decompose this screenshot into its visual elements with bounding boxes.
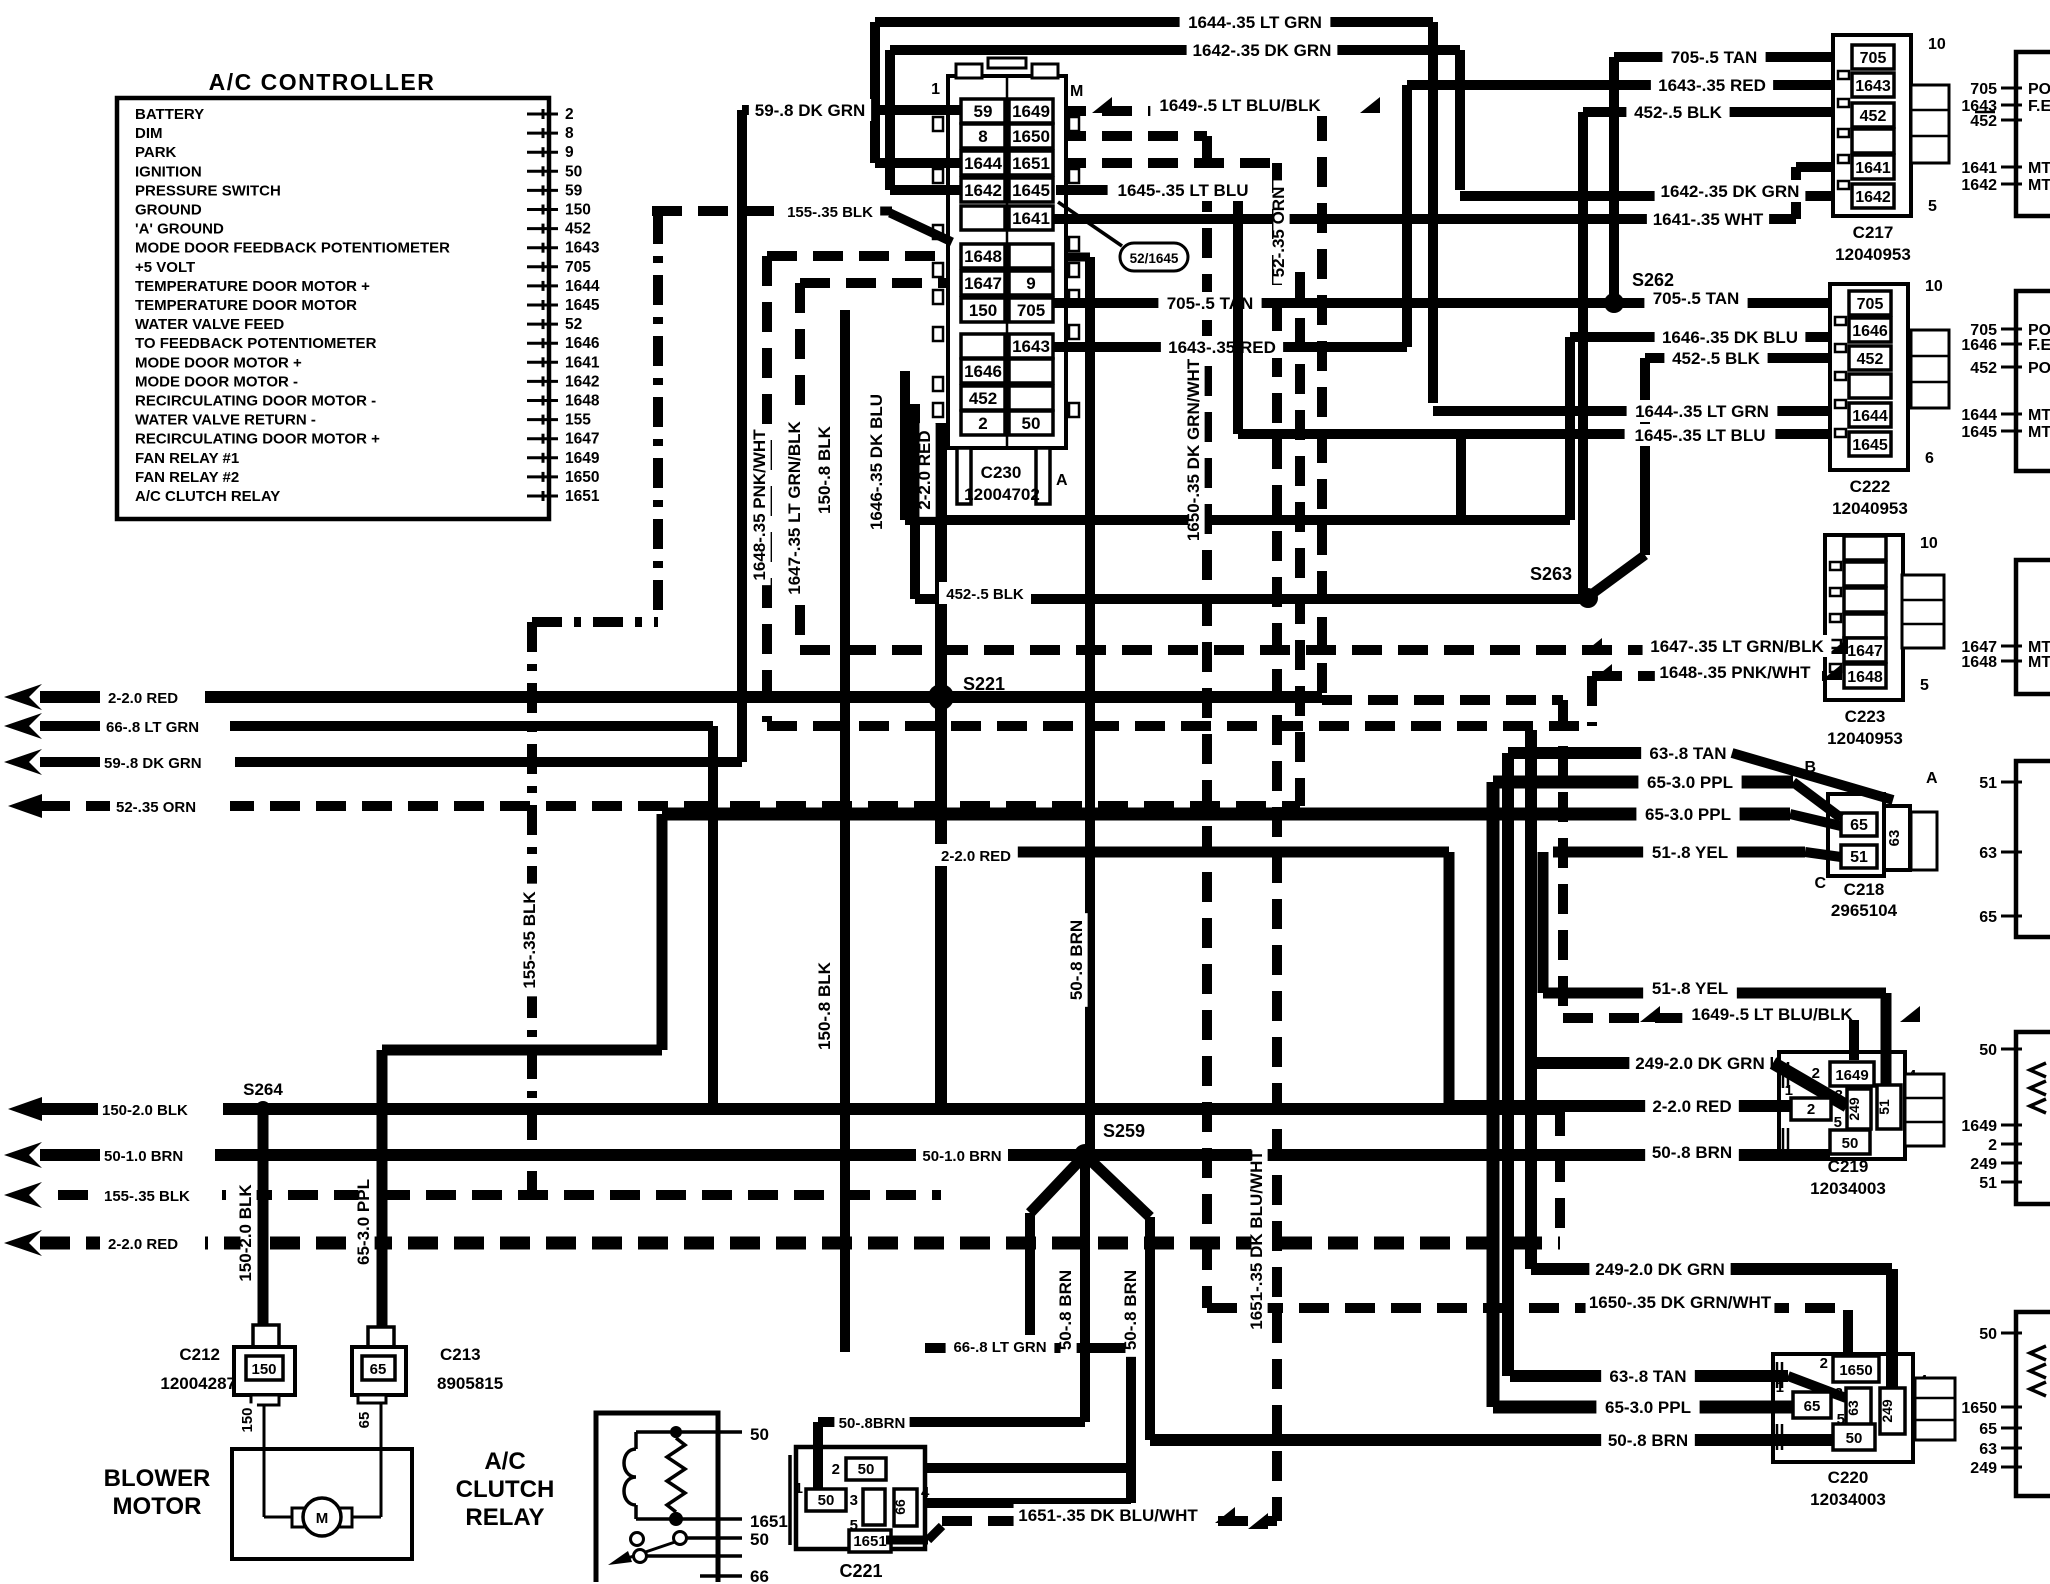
svg-text:PRESSURE SWITCH: PRESSURE SWITCH: [135, 182, 281, 199]
svg-text:1651: 1651: [853, 1533, 886, 1550]
svg-text:1647-.35 LT GRN/BLK: 1647-.35 LT GRN/BLK: [785, 421, 804, 595]
svg-text:C230: C230: [981, 463, 1022, 482]
svg-text:52/1645: 52/1645: [1130, 251, 1179, 266]
svg-text:S221: S221: [963, 674, 1005, 694]
svg-text:155: 155: [565, 412, 591, 429]
svg-text:249: 249: [1846, 1097, 1862, 1121]
svg-text:1645: 1645: [565, 297, 600, 314]
svg-text:1651-.35 DK BLU/WHT: 1651-.35 DK BLU/WHT: [1018, 1506, 1198, 1525]
svg-text:PO: PO: [2028, 81, 2050, 98]
svg-text:DIM: DIM: [135, 125, 163, 142]
svg-text:S262: S262: [1632, 270, 1674, 290]
svg-text:1642: 1642: [1855, 189, 1891, 206]
svg-text:1647: 1647: [1847, 643, 1883, 660]
svg-text:TEMPERATURE DOOR MOTOR +: TEMPERATURE DOOR MOTOR +: [135, 278, 370, 295]
svg-text:705: 705: [1970, 81, 1997, 98]
svg-text:A/C: A/C: [484, 1448, 525, 1475]
svg-text:63: 63: [1979, 1441, 1997, 1458]
svg-text:10: 10: [1925, 278, 1943, 295]
svg-text:51-.8 YEL: 51-.8 YEL: [1652, 979, 1728, 998]
svg-text:1641: 1641: [1855, 160, 1891, 177]
svg-text:WATER VALVE FEED: WATER VALVE FEED: [135, 316, 284, 333]
svg-text:65-3.0 PPL: 65-3.0 PPL: [354, 1179, 373, 1265]
svg-text:63-.8 TAN: 63-.8 TAN: [1649, 744, 1726, 763]
svg-text:66-.8 LT GRN: 66-.8 LT GRN: [106, 719, 199, 736]
svg-text:150: 150: [565, 202, 591, 219]
svg-text:66-.8 LT GRN: 66-.8 LT GRN: [953, 1339, 1046, 1356]
svg-text:1644-.35 LT GRN: 1644-.35 LT GRN: [1635, 402, 1769, 421]
svg-text:50-.8 BRN: 50-.8 BRN: [1652, 1143, 1732, 1162]
svg-text:MODE DOOR MOTOR +: MODE DOOR MOTOR +: [135, 354, 302, 371]
svg-text:452: 452: [969, 389, 997, 408]
svg-text:BATTERY: BATTERY: [135, 106, 204, 123]
svg-text:8: 8: [565, 125, 574, 142]
svg-text:CLUTCH: CLUTCH: [456, 1476, 555, 1503]
svg-text:1650: 1650: [1012, 127, 1050, 146]
svg-text:1646: 1646: [1852, 323, 1888, 340]
svg-text:65-3.0 PPL: 65-3.0 PPL: [1647, 773, 1733, 792]
svg-text:S259: S259: [1103, 1121, 1145, 1141]
svg-text:12040953: 12040953: [1827, 729, 1903, 748]
svg-text:1647-.35 LT GRN/BLK: 1647-.35 LT GRN/BLK: [1650, 637, 1824, 656]
svg-text:1650: 1650: [1961, 1400, 1997, 1417]
svg-text:1641: 1641: [565, 354, 600, 371]
svg-text:50: 50: [858, 1461, 875, 1478]
svg-text:1646-.35 DK BLU: 1646-.35 DK BLU: [1662, 328, 1798, 347]
svg-text:1644: 1644: [964, 154, 1002, 173]
svg-text:M: M: [1070, 83, 1083, 100]
svg-text:1650-.35 DK GRN/WHT: 1650-.35 DK GRN/WHT: [1184, 358, 1203, 541]
svg-text:155-.35 BLK: 155-.35 BLK: [787, 204, 873, 221]
svg-text:BLOWER: BLOWER: [104, 1465, 211, 1492]
svg-text:1648-.35 PNK/WHT: 1648-.35 PNK/WHT: [1659, 663, 1811, 682]
svg-text:51-.8 YEL: 51-.8 YEL: [1652, 843, 1728, 862]
svg-text:150: 150: [969, 301, 997, 320]
svg-text:C220: C220: [1828, 1468, 1869, 1487]
svg-text:PARK: PARK: [135, 144, 177, 161]
svg-text:1648-.35 PNK/WHT: 1648-.35 PNK/WHT: [750, 429, 769, 581]
svg-text:59: 59: [974, 102, 993, 121]
svg-text:2-2.0 RED: 2-2.0 RED: [915, 430, 934, 509]
svg-text:C218: C218: [1844, 880, 1885, 899]
svg-text:249: 249: [1879, 1399, 1895, 1423]
svg-text:1642-.35 DK GRN: 1642-.35 DK GRN: [1193, 41, 1332, 60]
svg-text:1643-.35 RED: 1643-.35 RED: [1168, 338, 1276, 357]
svg-text:1641: 1641: [1961, 160, 1997, 177]
svg-text:8: 8: [978, 127, 987, 146]
svg-text:IGNITION: IGNITION: [135, 163, 202, 180]
svg-text:3: 3: [1835, 1385, 1843, 1402]
svg-text:2: 2: [1807, 1101, 1815, 1118]
svg-text:1643: 1643: [565, 240, 600, 257]
svg-text:10: 10: [1928, 36, 1946, 53]
svg-text:65-3.0 PPL: 65-3.0 PPL: [1605, 1398, 1691, 1417]
svg-text:50-1.0 BRN: 50-1.0 BRN: [922, 1148, 1001, 1165]
svg-text:65: 65: [356, 1412, 373, 1429]
svg-text:1651: 1651: [1012, 154, 1050, 173]
svg-text:1646: 1646: [1961, 337, 1997, 354]
svg-text:5: 5: [1837, 1411, 1845, 1428]
svg-text:51: 51: [1979, 1175, 1997, 1192]
svg-text:59-.8 DK GRN: 59-.8 DK GRN: [104, 755, 202, 772]
svg-text:452-.5 BLK: 452-.5 BLK: [1672, 349, 1761, 368]
svg-text:2: 2: [1988, 1137, 1997, 1154]
svg-text:50: 50: [565, 163, 582, 180]
svg-text:RELAY: RELAY: [465, 1504, 544, 1531]
svg-text:GROUND: GROUND: [135, 202, 202, 219]
svg-text:MT: MT: [2028, 424, 2050, 441]
svg-text:C212: C212: [179, 1345, 220, 1364]
svg-text:50-.8 BRN: 50-.8 BRN: [1121, 1270, 1140, 1350]
svg-text:MT: MT: [2028, 160, 2050, 177]
svg-text:1648: 1648: [1847, 669, 1883, 686]
svg-text:S263: S263: [1530, 564, 1572, 584]
svg-text:12040953: 12040953: [1832, 499, 1908, 518]
svg-text:249-2.0 DK GRN: 249-2.0 DK GRN: [1595, 1260, 1724, 1279]
svg-text:4: 4: [921, 1484, 930, 1501]
svg-text:1: 1: [795, 1480, 803, 1497]
svg-text:F.E: F.E: [2028, 337, 2050, 354]
svg-text:2-2.0 RED: 2-2.0 RED: [108, 690, 178, 707]
svg-text:150: 150: [251, 1361, 276, 1378]
svg-text:50-1.0 BRN: 50-1.0 BRN: [104, 1148, 183, 1165]
svg-text:705: 705: [565, 259, 591, 276]
svg-text:MT: MT: [2028, 177, 2050, 194]
svg-text:65: 65: [1850, 817, 1868, 834]
svg-text:150: 150: [239, 1407, 256, 1432]
svg-text:MODE DOOR MOTOR -: MODE DOOR MOTOR -: [135, 373, 298, 390]
svg-text:MOTOR: MOTOR: [113, 1493, 202, 1520]
svg-text:1650-.35 DK GRN/WHT: 1650-.35 DK GRN/WHT: [1589, 1293, 1772, 1312]
svg-text:1651: 1651: [750, 1512, 788, 1531]
svg-text:65: 65: [1979, 909, 1997, 926]
svg-text:F.E: F.E: [2028, 98, 2050, 115]
svg-text:1: 1: [931, 81, 940, 98]
svg-text:50-.8 BRN: 50-.8 BRN: [1067, 920, 1086, 1000]
svg-text:50: 50: [1979, 1042, 1997, 1059]
svg-text:1646: 1646: [964, 362, 1002, 381]
svg-text:1645: 1645: [1852, 437, 1888, 454]
svg-text:51: 51: [1850, 849, 1868, 866]
svg-text:51: 51: [1876, 1099, 1892, 1115]
svg-text:2: 2: [832, 1461, 840, 1478]
svg-text:1649: 1649: [1961, 1118, 1997, 1135]
svg-text:MT: MT: [2028, 407, 2050, 424]
svg-text:1648: 1648: [964, 247, 1002, 266]
svg-text:1641-.35 WHT: 1641-.35 WHT: [1653, 210, 1764, 229]
svg-text:6: 6: [1925, 450, 1934, 467]
svg-text:'A' GROUND: 'A' GROUND: [135, 221, 224, 238]
svg-text:150-.8 BLK: 150-.8 BLK: [815, 425, 834, 514]
svg-text:65: 65: [1979, 1421, 1997, 1438]
svg-text:1644: 1644: [1961, 407, 1997, 424]
svg-text:C222: C222: [1850, 477, 1891, 496]
svg-text:C: C: [1814, 875, 1826, 892]
svg-text:1645-.35 LT BLU: 1645-.35 LT BLU: [1117, 181, 1248, 200]
svg-text:5: 5: [1834, 1114, 1842, 1131]
svg-text:12034003: 12034003: [1810, 1490, 1886, 1509]
svg-text:63: 63: [1845, 1400, 1861, 1416]
svg-text:10: 10: [1920, 535, 1938, 552]
svg-text:+5 VOLT: +5 VOLT: [135, 259, 195, 276]
svg-text:1649: 1649: [565, 450, 600, 467]
svg-text:1645-.35 LT BLU: 1645-.35 LT BLU: [1634, 426, 1765, 445]
svg-text:249-2.0 DK GRN: 249-2.0 DK GRN: [1635, 1054, 1764, 1073]
svg-text:150-2.0 BLK: 150-2.0 BLK: [102, 1102, 188, 1119]
svg-text:705: 705: [1857, 296, 1884, 313]
svg-text:5: 5: [1920, 677, 1929, 694]
svg-text:50: 50: [1846, 1430, 1863, 1447]
svg-text:1646-.35 DK BLU: 1646-.35 DK BLU: [867, 394, 886, 530]
svg-text:705: 705: [1017, 301, 1045, 320]
svg-text:12034003: 12034003: [1810, 1179, 1886, 1198]
svg-text:1642: 1642: [1961, 177, 1997, 194]
svg-text:3: 3: [850, 1492, 858, 1509]
svg-text:MT: MT: [2028, 654, 2050, 671]
svg-text:66: 66: [892, 1499, 908, 1515]
svg-text:65: 65: [370, 1361, 387, 1378]
svg-text:A: A: [1926, 770, 1938, 787]
svg-text:A/C CONTROLLER: A/C CONTROLLER: [209, 69, 436, 95]
svg-text:1642: 1642: [565, 373, 599, 390]
svg-text:452-.5 BLK: 452-.5 BLK: [946, 586, 1024, 603]
svg-text:1644: 1644: [565, 278, 600, 295]
svg-text:RECIRCULATING DOOR MOTOR +: RECIRCULATING DOOR MOTOR +: [135, 431, 380, 448]
svg-text:3: 3: [1835, 1087, 1843, 1104]
svg-text:50: 50: [818, 1492, 835, 1509]
svg-text:A: A: [1056, 472, 1068, 489]
svg-text:452: 452: [1857, 351, 1884, 368]
svg-text:150-.8 BLK: 150-.8 BLK: [815, 961, 834, 1050]
svg-text:452: 452: [1970, 360, 1997, 377]
svg-text:705-.5 TAN: 705-.5 TAN: [1653, 289, 1740, 308]
svg-text:1646: 1646: [565, 335, 600, 352]
svg-text:MODE DOOR FEEDBACK POTENTIOMET: MODE DOOR FEEDBACK POTENTIOMETER: [135, 240, 450, 257]
svg-text:1642: 1642: [964, 181, 1002, 200]
svg-text:RECIRCULATING DOOR MOTOR -: RECIRCULATING DOOR MOTOR -: [135, 393, 376, 410]
svg-text:C223: C223: [1845, 707, 1886, 726]
svg-text:TO FEEDBACK POTENTIOMETER: TO FEEDBACK POTENTIOMETER: [135, 335, 377, 352]
svg-text:249: 249: [1970, 1460, 1997, 1477]
svg-text:1649: 1649: [1012, 102, 1050, 121]
svg-text:C213: C213: [440, 1345, 481, 1364]
svg-text:50: 50: [750, 1425, 769, 1444]
svg-text:150-2.0 BLK: 150-2.0 BLK: [236, 1184, 255, 1282]
svg-text:705-.5 TAN: 705-.5 TAN: [1671, 48, 1758, 67]
svg-text:50: 50: [1979, 1326, 1997, 1343]
svg-text:1650: 1650: [1839, 1362, 1872, 1379]
svg-text:2: 2: [1820, 1355, 1828, 1372]
svg-text:2-2.0 RED: 2-2.0 RED: [108, 1236, 178, 1253]
svg-text:9: 9: [565, 144, 574, 161]
svg-text:S264: S264: [243, 1080, 283, 1099]
svg-text:1648: 1648: [1961, 654, 1997, 671]
svg-text:TEMPERATURE DOOR MOTOR: TEMPERATURE DOOR MOTOR: [135, 297, 357, 314]
svg-text:1643: 1643: [1012, 337, 1050, 356]
svg-text:51: 51: [1979, 775, 1997, 792]
svg-text:2: 2: [1812, 1065, 1820, 1082]
svg-text:50-.8 BRN: 50-.8 BRN: [1608, 1431, 1688, 1450]
svg-text:2-2.0 RED: 2-2.0 RED: [941, 848, 1011, 865]
svg-text:8905815: 8905815: [437, 1374, 503, 1393]
svg-text:12004287: 12004287: [160, 1374, 236, 1393]
svg-text:C217: C217: [1853, 223, 1894, 242]
svg-text:63-.8 TAN: 63-.8 TAN: [1609, 1367, 1686, 1386]
svg-text:59: 59: [565, 182, 583, 199]
svg-text:1651: 1651: [565, 488, 600, 505]
svg-text:50-.8BRN: 50-.8BRN: [839, 1415, 906, 1432]
svg-text:2: 2: [565, 106, 574, 123]
svg-text:A/C CLUTCH RELAY: A/C CLUTCH RELAY: [135, 488, 280, 505]
svg-text:63: 63: [1886, 830, 1903, 847]
svg-text:452: 452: [565, 221, 591, 238]
svg-text:155-.35 BLK: 155-.35 BLK: [104, 1188, 190, 1205]
svg-text:1649-.5 LT BLU/BLK: 1649-.5 LT BLU/BLK: [1159, 96, 1321, 115]
svg-text:C219: C219: [1828, 1157, 1869, 1176]
svg-text:452-.5 BLK: 452-.5 BLK: [1634, 103, 1723, 122]
svg-text:PO: PO: [2028, 360, 2050, 377]
svg-text:1642-.35 DK GRN: 1642-.35 DK GRN: [1661, 182, 1800, 201]
svg-text:2-2.0 RED: 2-2.0 RED: [1652, 1097, 1731, 1116]
svg-text:52-.35 ORN: 52-.35 ORN: [116, 799, 196, 816]
svg-text:12040953: 12040953: [1835, 245, 1911, 264]
svg-text:52-.35 ORN: 52-.35 ORN: [1269, 187, 1288, 278]
svg-text:1650: 1650: [565, 469, 599, 486]
svg-text:1645: 1645: [1961, 424, 1997, 441]
svg-text:50: 50: [1842, 1135, 1859, 1152]
svg-text:1647: 1647: [964, 274, 1002, 293]
svg-text:1643: 1643: [1855, 78, 1891, 95]
svg-text:452: 452: [1970, 113, 1997, 130]
svg-text:2: 2: [978, 414, 987, 433]
svg-text:M: M: [316, 1510, 329, 1527]
svg-text:5: 5: [1928, 198, 1937, 215]
svg-text:1651-.35 DK BLU/WHT: 1651-.35 DK BLU/WHT: [1247, 1150, 1266, 1330]
svg-text:50: 50: [1022, 414, 1041, 433]
svg-text:WATER VALVE RETURN -: WATER VALVE RETURN -: [135, 412, 316, 429]
svg-text:9: 9: [1026, 274, 1035, 293]
svg-text:1641: 1641: [1012, 209, 1050, 228]
svg-text:1643-.35 RED: 1643-.35 RED: [1658, 76, 1766, 95]
svg-text:65-3.0 PPL: 65-3.0 PPL: [1645, 805, 1731, 824]
svg-text:1647: 1647: [565, 431, 599, 448]
svg-text:1644: 1644: [1852, 408, 1888, 425]
svg-text:65: 65: [1804, 1398, 1821, 1415]
svg-text:C221: C221: [839, 1561, 882, 1581]
svg-text:FAN RELAY #1: FAN RELAY #1: [135, 450, 239, 467]
svg-text:249: 249: [1970, 1156, 1997, 1173]
svg-text:50: 50: [750, 1530, 769, 1549]
svg-text:1645: 1645: [1012, 181, 1050, 200]
svg-text:1648: 1648: [565, 393, 600, 410]
svg-text:452: 452: [1860, 108, 1887, 125]
svg-text:59-.8 DK GRN: 59-.8 DK GRN: [755, 101, 866, 120]
svg-text:52: 52: [565, 316, 582, 333]
svg-text:155-.35 BLK: 155-.35 BLK: [520, 891, 539, 989]
svg-text:1649-.5 LT BLU/BLK: 1649-.5 LT BLU/BLK: [1691, 1005, 1853, 1024]
svg-text:FAN RELAY #2: FAN RELAY #2: [135, 469, 239, 486]
svg-text:66: 66: [750, 1567, 769, 1584]
svg-text:705: 705: [1860, 50, 1887, 67]
svg-text:2965104: 2965104: [1831, 901, 1898, 920]
svg-text:12004702: 12004702: [964, 485, 1040, 504]
svg-text:1644-.35 LT GRN: 1644-.35 LT GRN: [1188, 13, 1322, 32]
svg-text:50-.8 BRN: 50-.8 BRN: [1056, 1270, 1075, 1350]
svg-text:63: 63: [1979, 845, 1997, 862]
svg-text:1649: 1649: [1835, 1067, 1868, 1084]
